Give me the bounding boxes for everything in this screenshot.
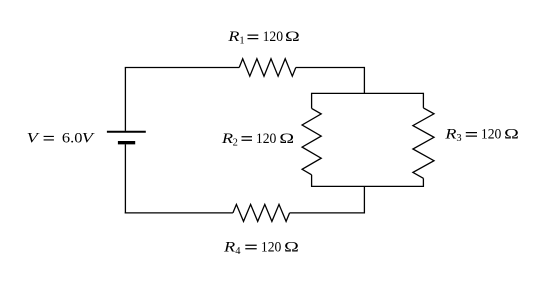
svg-text:Ω: Ω <box>285 28 300 45</box>
wire: top side, right segment from R1 <box>296 67 365 69</box>
svg-text:120: 120 <box>481 127 502 143</box>
resistor R3 <box>413 108 434 178</box>
label R2 value <box>221 129 294 148</box>
svg-text:4: 4 <box>235 246 241 257</box>
wire: bottom side, right segment to R4 <box>290 212 365 214</box>
svg-text:Ω: Ω <box>279 129 294 146</box>
resistor R1 <box>239 59 296 76</box>
wire: parallel section bottom rail <box>312 185 424 187</box>
resistor R4 <box>233 204 290 221</box>
svg-text:R: R <box>221 129 233 146</box>
svg-text:3: 3 <box>456 133 461 144</box>
svg-text:Ω: Ω <box>284 238 299 255</box>
svg-text:6.0: 6.0 <box>62 131 83 147</box>
svg-text:120: 120 <box>261 239 282 255</box>
wire: left branch upper lead <box>311 93 313 109</box>
svg-text:120: 120 <box>263 29 284 45</box>
resistor R2 <box>302 108 321 174</box>
wire: stem from bottom rail down to bottom wire <box>363 186 365 213</box>
label R1 value <box>227 28 300 47</box>
label V source value <box>27 129 95 146</box>
svg-text:V: V <box>27 129 40 146</box>
wire: top side, left segment to R1 <box>125 67 239 69</box>
wire: bottom side, left segment from R4 to battery column <box>125 212 233 214</box>
svg-text:R: R <box>223 238 235 255</box>
svg-text:R: R <box>444 125 456 142</box>
wire: left branch lower lead <box>311 175 313 187</box>
label R3 value <box>444 125 519 144</box>
battery V1 negative plate (short thick) <box>118 141 135 144</box>
wire: battery negative terminal down to bottom-left corner <box>124 144 126 213</box>
svg-text:R: R <box>227 28 239 45</box>
svg-text:2: 2 <box>233 137 238 148</box>
svg-text:Ω: Ω <box>504 125 519 142</box>
battery V1 positive plate (long thin) <box>107 131 146 133</box>
wire: right branch lower lead <box>422 178 424 187</box>
svg-text:1: 1 <box>239 36 244 47</box>
wire: battery positive terminal up to top-left corner <box>124 68 126 131</box>
wire: parallel section top rail <box>312 92 424 94</box>
wire: right branch upper lead <box>422 93 424 108</box>
wire: stem from top wire down to parallel top rail <box>363 67 365 94</box>
label R4 value <box>223 238 299 257</box>
svg-text:120: 120 <box>256 131 277 147</box>
svg-text:V: V <box>82 129 95 146</box>
